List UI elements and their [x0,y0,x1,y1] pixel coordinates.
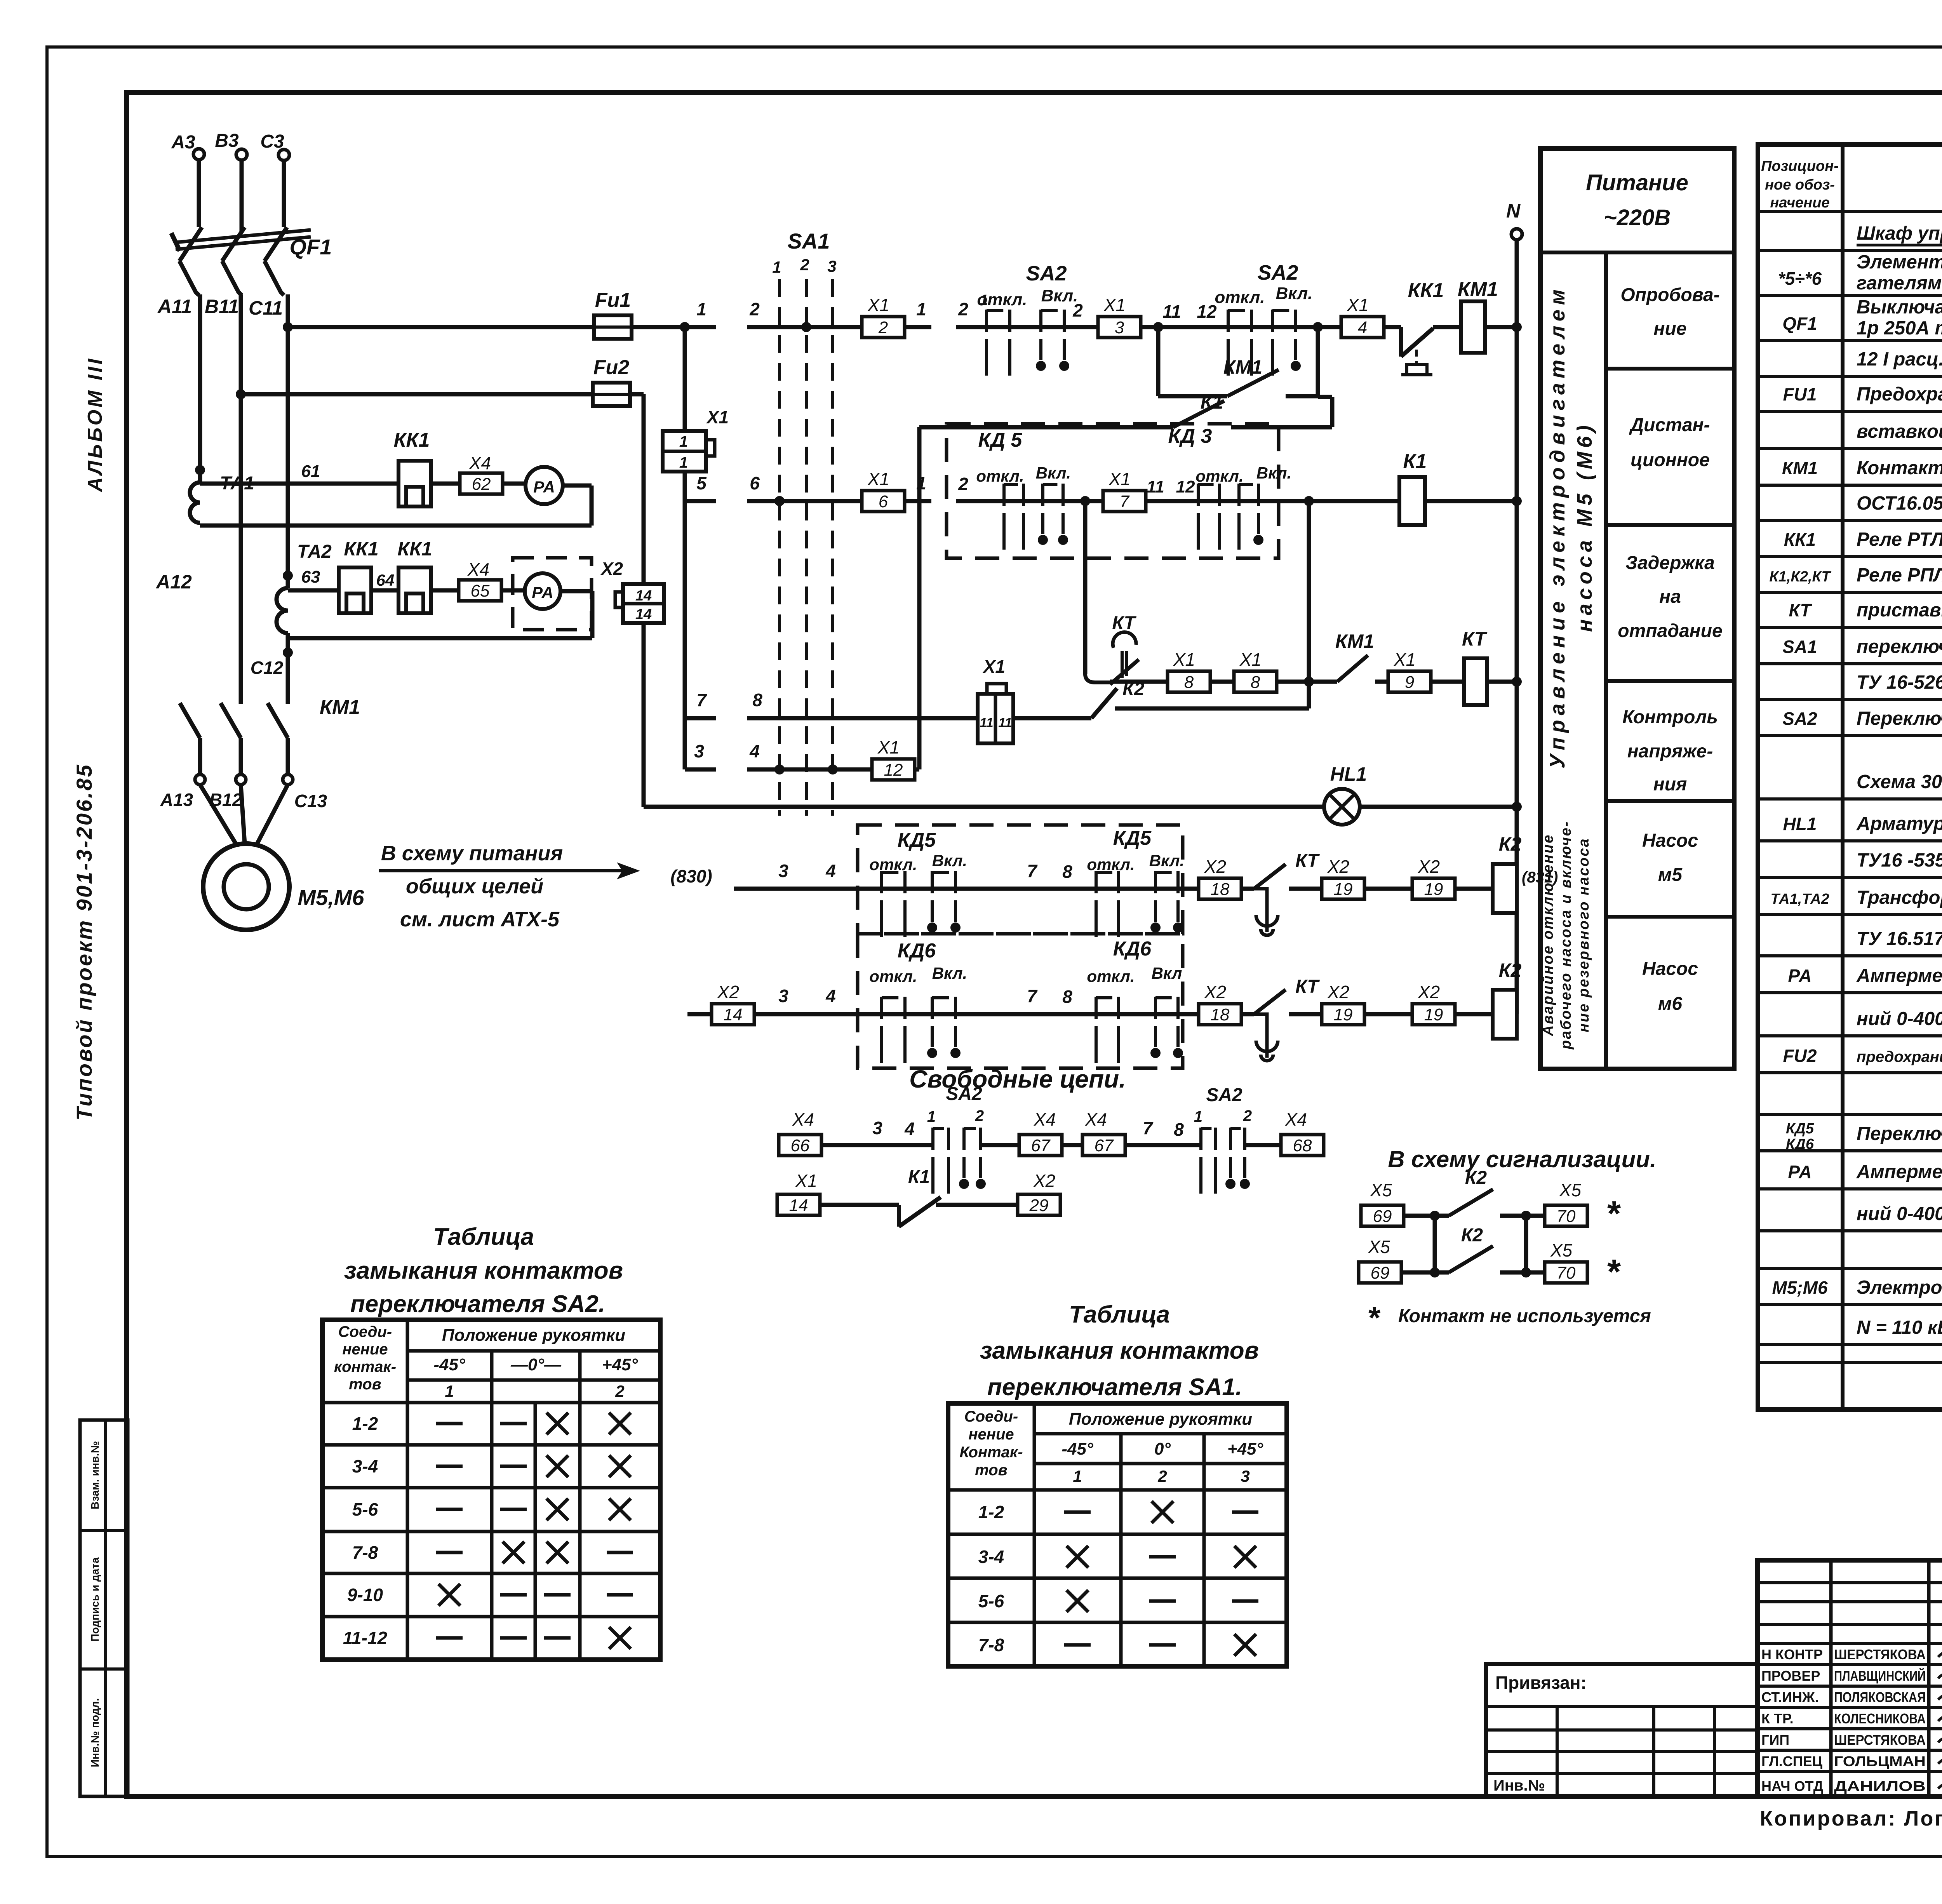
svg-text:1-2: 1-2 [978,1502,1004,1522]
svg-text:SA2: SA2 [1782,708,1817,729]
svg-text:69: 69 [1371,1264,1390,1283]
svg-text:Трансформатор ТК-20- 0.5-400/: Трансформатор ТК-20- 0.5-400/5УЗ [1857,887,1942,908]
rotated label emergency switchover [1540,821,1592,1050]
svg-text:Положение рукоятки: Положение рукоятки [442,1326,625,1345]
svg-text:отпадание: отпадание [1618,621,1722,641]
switch KD5 group1 [869,851,967,937]
table SA1 [948,1403,1287,1666]
svg-text:откл.: откл. [1087,967,1135,985]
svg-text:Н КОНТР: Н КОНТР [1761,1646,1823,1662]
switch KD5 group2 [1087,851,1184,937]
svg-text:С13: С13 [294,791,327,811]
svg-text:КМ1: КМ1 [1458,278,1498,301]
contact K2 signal b [1401,1225,1545,1277]
svg-text:11: 11 [1147,477,1164,496]
svg-text:приставка ПВЛ 2204 ТУ16-523.55: приставка ПВЛ 2204 ТУ16-523.554-78 [1857,600,1942,621]
svg-text:Таблица: Таблица [433,1224,534,1250]
wire row4 to K1 branch [915,768,919,772]
svg-text:Позицион-: Позицион- [1761,158,1839,174]
svg-text:РА: РА [1788,966,1811,986]
svg-text:Х2: Х2 [717,982,739,1002]
svg-text:КК1: КК1 [394,429,430,451]
svg-text:ДАНИЛОВ: ДАНИЛОВ [1834,1778,1926,1794]
wire pump M5 row [734,861,1199,889]
svg-text:8: 8 [1184,673,1194,692]
parts list table [1758,144,1942,1410]
connector X2 19 d [1412,982,1455,1025]
svg-text:Таблица: Таблица [1069,1301,1170,1328]
svg-text:Переключатель ПКУ 3-12А - 3016: Переключатель ПКУ 3-12А - 3016 [1857,1123,1942,1144]
title block privyazan box [1486,1664,1758,1796]
svg-text:К1,К2,КТ: К1,К2,КТ [1769,569,1831,585]
wire X2 down to lamp row [642,623,646,807]
svg-text:6: 6 [750,473,760,493]
svg-text:ний 0-400А ТТ400/5А ТУ 25.04-1: ний 0-400А ТТ400/5А ТУ 25.04-1308-76. [1857,1008,1942,1029]
svg-text:КД6: КД6 [1786,1136,1814,1152]
svg-text:Х1: Х1 [706,407,729,427]
svg-text:2: 2 [975,1107,984,1124]
svg-text:62: 62 [472,475,491,494]
svg-text:ние: ние [1653,318,1686,339]
svg-text:4: 4 [825,986,836,1006]
svg-text:ТУ 16.517.442 -75: ТУ 16.517.442 -75 [1857,928,1942,949]
contactor KM1 main contacts [180,696,360,738]
svg-text:АЛЬБОМ III: АЛЬБОМ III [84,357,106,493]
svg-text:Контак-: Контак- [959,1444,1023,1461]
svg-text:2: 2 [1157,1467,1167,1485]
svg-text:7-8: 7-8 [352,1542,378,1563]
contact K2 signal a [1404,1168,1545,1221]
svg-text:0°: 0° [1154,1439,1171,1458]
svg-text:1-2: 1-2 [352,1413,378,1434]
bottom captions [1760,1803,1942,1830]
svg-text:1: 1 [679,433,688,450]
wire PA return loop [200,486,592,526]
svg-text:Подпись и дата: Подпись и дата [89,1557,101,1641]
svg-text:ГИП: ГИП [1761,1732,1789,1748]
heater KK1 b [339,538,379,613]
svg-text:Копировал: Логинова: Копировал: Логинова [1760,1807,1942,1830]
wire signal link verticals [1435,1216,1526,1272]
connector X4 62 [460,453,503,494]
relay coil K1 [1309,450,1517,525]
time contact KT pump M5 [1241,851,1322,935]
wire [1245,1143,1281,1147]
svg-text:14: 14 [635,606,652,623]
wire KK1 to X4 [431,482,460,486]
svg-text:Х5: Х5 [1550,1240,1573,1260]
connector X1 11/11 [978,656,1013,743]
connector X2 14/14 [600,559,664,623]
connector X4 67 b [1082,1109,1125,1156]
wire row4 segment 4 [747,741,872,769]
switch SA2 free group2 [1194,1085,1252,1194]
lamp HL1 [1324,763,1367,825]
svg-text:К1: К1 [1403,450,1427,473]
svg-text:замыкания контактов: замыкания контактов [344,1257,623,1284]
svg-text:69: 69 [1373,1207,1392,1226]
contact KM1 aux self-hold [1158,356,1318,396]
svg-text:Х2: Х2 [1327,982,1349,1002]
svg-text:Привязан:: Привязан: [1495,1673,1587,1693]
dashed box KD5/KD3 remote contacts [947,424,1279,558]
svg-text:РА: РА [1788,1162,1811,1182]
svg-text:ШЕРСТЯКОВА: ШЕРСТЯКОВА [1834,1646,1926,1662]
svg-text:12: 12 [1176,477,1195,496]
note to feed scheme text [379,842,640,931]
svg-text:Х1: Х1 [1173,649,1195,670]
svg-text:ное обоз-: ное обоз- [1765,177,1835,193]
wire row1 segment 3 [956,292,1401,332]
svg-text:С3: С3 [260,131,284,152]
svg-text:Х5: Х5 [1368,1237,1390,1257]
svg-text:откл.: откл. [977,290,1027,309]
connector X1 12 [872,737,915,780]
svg-text:Х5: Х5 [1370,1180,1392,1200]
svg-text:Х2: Х2 [1033,1171,1055,1191]
wire row2 segment 5 [685,473,716,501]
svg-text:2: 2 [749,299,760,319]
relay coil KT [1431,628,1517,705]
svg-text:6: 6 [879,492,888,511]
svg-text:8: 8 [1251,673,1260,692]
svg-text:Задержка: Задержка [1625,553,1715,573]
wire row2 segment 6 [747,473,931,501]
svg-text:(830): (830) [670,866,712,886]
svg-text:8: 8 [1062,861,1072,882]
rotated label motor control [1546,285,1596,768]
switch KD6 group2 [1087,964,1183,1063]
svg-text:Х2: Х2 [600,559,623,579]
svg-text:68: 68 [1293,1136,1312,1155]
svg-text:2: 2 [800,256,809,274]
svg-text:Х2: Х2 [1327,856,1349,877]
svg-text:Контроль: Контроль [1622,707,1718,727]
svg-text:Х5: Х5 [1559,1180,1582,1200]
svg-text:67: 67 [1031,1136,1051,1155]
connector X2 19 b [1412,856,1455,899]
svg-text:1: 1 [1073,1467,1082,1485]
wire vertical to X1 12 row [917,427,922,769]
svg-text:SA1: SA1 [788,229,830,253]
wire row 61 [200,462,398,484]
svg-text:66: 66 [791,1136,810,1155]
svg-text:4: 4 [749,741,760,761]
svg-text:HL1: HL1 [1783,814,1817,834]
switch SA2 group 2 [1215,261,1313,376]
svg-text:Схема 3016 рук.рев.ТУ16-526.04: Схема 3016 рук.рев.ТУ16-526.047-74 [1857,771,1942,792]
svg-text:В11: В11 [205,296,239,317]
svg-text:А13: А13 [160,790,193,810]
svg-text:откл.: откл. [869,855,917,874]
svg-text:1: 1 [927,1108,936,1125]
terminals A13 B12 C13 [160,774,327,811]
svg-text:Вкл.: Вкл. [1041,286,1078,305]
wire lamp row [644,805,1517,809]
svg-text:14: 14 [789,1196,808,1215]
switch SA1 dashed contact lines [772,229,838,816]
svg-text:вставкой типоисполнение ПВД II: вставкой типоисполнение ПВД III пл.вст 1… [1857,421,1942,442]
switch SA2 group 1 [977,262,1078,376]
motor M5 M6 [203,844,364,930]
svg-text:5-6: 5-6 [352,1499,378,1519]
footnote contact not used [1367,1300,1651,1335]
svg-text:5: 5 [696,473,707,493]
svg-text:КК1: КК1 [1408,279,1444,302]
svg-text:гателям И М5 (М6): гателям И М5 (М6) [1857,273,1942,294]
svg-text:67: 67 [1095,1136,1114,1155]
svg-text:19: 19 [1424,880,1443,899]
svg-text:3: 3 [872,1118,882,1138]
svg-text:SA1: SA1 [1782,637,1817,657]
svg-text:11: 11 [980,715,993,730]
svg-text:переключатель ПКУЗ-12СУЗ. Схем: переключатель ПКУЗ-12СУЗ. Схема 2024 Рук… [1857,636,1942,657]
connector X5 69 b [1359,1237,1401,1283]
svg-text:Х1: Х1 [867,295,889,315]
switch KD5 group1 on row2 [976,464,1071,550]
svg-text:КТ: КТ [1295,976,1320,997]
svg-text:Вкл.: Вкл. [1276,284,1313,303]
svg-text:КТ: КТ [1462,628,1488,650]
breaker QF1 [171,227,332,295]
svg-text:Х1: Х1 [982,656,1005,677]
connector X2 14 [687,1012,712,1016]
wire phase C down to KM1 [286,633,290,704]
svg-text:Вкл.: Вкл. [1256,464,1291,482]
svg-text:N = 110 кВт.: N = 110 кВт. [1857,1317,1942,1338]
svg-text:11: 11 [998,715,1012,730]
svg-text:Контакт не используется: Контакт не используется [1398,1306,1651,1326]
svg-text:Х2: Х2 [1204,982,1226,1002]
contactor coil KM1 [1458,278,1522,353]
svg-text:Инв.№: Инв.№ [1493,1777,1545,1794]
svg-text:тов: тов [975,1462,1008,1479]
svg-text:КД 5: КД 5 [978,429,1023,451]
svg-text:3: 3 [827,257,836,275]
svg-text:Х1: Х1 [1394,649,1416,670]
svg-text:В схему питания: В схему питания [381,842,563,865]
svg-text:14: 14 [635,588,652,604]
svg-text:29: 29 [1029,1196,1049,1215]
svg-text:Х2: Х2 [1204,856,1226,877]
svg-text:КТ: КТ [1112,613,1136,634]
svg-text:КМ1: КМ1 [320,696,360,719]
svg-text:К1: К1 [1201,391,1223,413]
wire [981,1143,1019,1147]
svg-text:1: 1 [1194,1108,1202,1125]
wire Fu2 drop to X2 [630,394,644,584]
svg-text:FU2: FU2 [1783,1046,1817,1066]
svg-text:В схему сигнализации.: В схему сигнализации. [1388,1146,1656,1172]
connector X1 8 b [1234,649,1277,692]
svg-text:Контактор КТ6043У ~220В.50Гц б: Контактор КТ6043У ~220В.50Гц б/к 2з; 2р. [1857,458,1942,479]
svg-text:Насос: Насос [1642,830,1698,851]
switch KD3 group2 on row2 [1195,464,1291,550]
svg-text:1р 250А тепловой расцепитель 2: 1р 250А тепловой расцепитель 250А Уставк… [1857,318,1942,339]
svg-text:КД5: КД5 [1113,827,1152,849]
wire 64 [371,571,398,590]
svg-text:А3: А3 [171,132,195,153]
svg-text:В3: В3 [215,131,239,151]
wire row1 segment 2 [747,299,931,327]
time relay KT pickup branch [1080,496,1139,684]
time contact KT pump M6 [1241,976,1322,1061]
wire row2 segment main [956,474,1399,506]
svg-text:Х1: Х1 [867,469,889,489]
wire row4 segment 3 [685,741,716,769]
wire free row1 a [821,1118,933,1145]
svg-text:ГЛ.СПЕЦ: ГЛ.СПЕЦ [1761,1753,1823,1769]
connector X1 1/1 [663,407,729,472]
svg-text:~220В: ~220В [1604,205,1671,230]
connector X1 3 [1098,295,1141,338]
wires to motor [200,738,288,844]
svg-text:14: 14 [724,1005,743,1024]
svg-text:3: 3 [694,741,704,761]
connector X4 67 a [1019,1109,1062,1156]
svg-text:12: 12 [884,761,903,780]
svg-text:Вкл.: Вкл. [932,851,967,870]
svg-text:2: 2 [958,299,968,319]
svg-text:3-4: 3-4 [352,1456,378,1476]
svg-text:61: 61 [301,462,320,481]
svg-text:переключателя SA2.: переключателя SA2. [350,1291,605,1317]
svg-text:см. лист АТХ-5: см. лист АТХ-5 [400,908,560,931]
contact KM1 aux on row3 [1335,630,1388,682]
svg-text:1: 1 [679,454,688,471]
table SA2 data [343,1413,633,1649]
svg-text:К ТР.: К ТР. [1761,1711,1794,1726]
wire vertical junction to row D [683,327,687,769]
svg-text:ШЕРСТЯКОВА: ШЕРСТЯКОВА [1834,1732,1926,1748]
wire [1210,680,1234,684]
svg-text:12 I расц. ТУ 16.522.028-74: 12 I расц. ТУ 16.522.028-74 [1857,349,1942,370]
svg-text:Переключатель ПКУЗ- 12 АУЗ: Переключатель ПКУЗ- 12 АУЗ [1857,708,1942,729]
svg-text:А11: А11 [157,296,192,317]
svg-text:ния: ния [1653,774,1687,795]
svg-text:ПРОВЕР: ПРОВЕР [1761,1668,1820,1684]
contact K1 [919,391,1332,427]
svg-text:19: 19 [1424,1005,1443,1024]
svg-text:Fu1: Fu1 [595,289,631,312]
svg-text:Реле РПЛ 1220*4 ~220В ТУ16-523: Реле РПЛ 1220*4 ~220В ТУ16-523.554-78 [1857,565,1942,586]
svg-text:Х1: Х1 [1108,469,1131,489]
connector X2 18 [1199,856,1241,899]
svg-text:А12: А12 [155,571,192,593]
svg-text:Х1: Х1 [1347,295,1369,315]
svg-text:переключателя SA1.: переключателя SA1. [987,1374,1242,1401]
svg-text:Питание: Питание [1586,170,1688,195]
connector X2 19 c [1322,982,1364,1025]
svg-text:Х4: Х4 [792,1109,814,1130]
svg-text:Соеди-: Соеди- [338,1323,392,1340]
svg-text:ТА1,ТА2: ТА1,ТА2 [1770,891,1829,907]
svg-text:КД5: КД5 [898,829,936,851]
svg-text:N: N [1506,200,1521,222]
heater KK1 c [397,538,432,613]
svg-text:Амперметр Э377 кл. 1.5 предел: Амперметр Э377 кл. 1.5 предел измере- [1856,1161,1942,1182]
fuse Fu1 [594,289,632,339]
connector X4 66 [779,1109,821,1156]
svg-text:3: 3 [778,861,788,881]
svg-text:Х2: Х2 [1418,856,1440,877]
connector X1 2 [862,295,905,338]
svg-text:12: 12 [1197,301,1217,322]
svg-text:на: на [1659,587,1681,607]
svg-text:откл.: откл. [976,467,1024,485]
svg-text:11-12: 11-12 [343,1628,388,1648]
svg-text:рабочего насоса и включе-: рабочего насоса и включе- [1558,821,1574,1050]
svg-text:откл.: откл. [1195,467,1243,485]
svg-text:Х1: Х1 [877,737,900,757]
svg-text:SA2: SA2 [1206,1085,1242,1105]
svg-text:*: * [1367,1300,1381,1335]
svg-text:Х4: Х4 [467,559,489,580]
svg-text:2: 2 [615,1382,624,1400]
wire pump M6 row [754,986,1199,1014]
svg-text:Вкл.: Вкл. [1036,464,1071,482]
svg-text:Х4: Х4 [469,453,491,473]
svg-text:ние резервного насоса: ние резервного насоса [1576,837,1592,1032]
svg-text:SA2: SA2 [1257,261,1298,284]
svg-text:насоса М5 (М6): насоса М5 (М6) [1573,421,1596,632]
wire row 63 [288,567,339,590]
svg-text:Опробова-: Опробова- [1620,285,1719,305]
svg-text:+45°: +45° [602,1355,638,1374]
svg-text:8: 8 [1062,987,1072,1007]
svg-text:FU1: FU1 [1783,384,1817,404]
wire row1 from C11 [283,322,594,332]
svg-text:3: 3 [1241,1467,1249,1485]
svg-text:ГОЛЬЦМАН: ГОЛЬЦМАН [1834,1753,1926,1769]
wire PA2 return loop [288,591,592,638]
wire branch 12 up [1316,327,1320,396]
svg-text:Арматура АМЕ 323221242 ~220: Арматура АМЕ 323221242 ~220В [1856,813,1942,834]
svg-text:С11: С11 [249,297,283,319]
transformer TA2 [277,541,332,633]
svg-text:Предохранитель прс-2543-п с пл: Предохранитель прс-2543-п с плавкой [1857,384,1942,405]
svg-text:СТ.ИНЖ.: СТ.ИНЖ. [1761,1689,1818,1705]
svg-text:Fu2: Fu2 [593,356,630,379]
table SA1 title [980,1301,1259,1401]
svg-text:5-6: 5-6 [978,1591,1004,1611]
svg-text:К2: К2 [1465,1168,1487,1188]
svg-text:SA2: SA2 [1026,262,1067,285]
svg-text:М5;М6: М5;М6 [1772,1277,1828,1298]
svg-text:Амперметр Э377 кл. 1.5 предел: Амперметр Э377 кл. 1.5 предел измере- [1856,965,1942,986]
svg-text:8: 8 [1174,1119,1184,1140]
svg-text:Вкл.: Вкл. [1149,851,1184,870]
svg-text:3-4: 3-4 [978,1547,1004,1567]
svg-text:Аварийное отключение: Аварийное отключение [1540,834,1556,1036]
svg-text:QF1: QF1 [1782,313,1817,334]
svg-text:7: 7 [1027,861,1038,881]
svg-text:64: 64 [376,571,395,589]
connector X1 8 a [1168,649,1210,692]
svg-text:—0°—: —0°— [510,1355,562,1374]
svg-text:QF1: QF1 [290,235,332,259]
svg-text:19: 19 [1334,880,1353,899]
svg-text:общих целей: общих целей [406,875,543,898]
connector X1 9 [1388,649,1431,692]
svg-text:70: 70 [1557,1207,1576,1226]
svg-text:КМ1: КМ1 [1782,458,1818,478]
svg-text:Выключатель А3726 ЧУЗ,~380В, 5: Выключатель А3726 ЧУЗ,~380В, 50ГЧ [1857,297,1942,318]
transformer TA1 [190,465,254,523]
dashed box KD6 [858,934,1183,1068]
node A11 B11 C11 labels [157,296,283,319]
svg-text:ТУ 16-526.047- 74: ТУ 16-526.047- 74 [1857,672,1942,693]
